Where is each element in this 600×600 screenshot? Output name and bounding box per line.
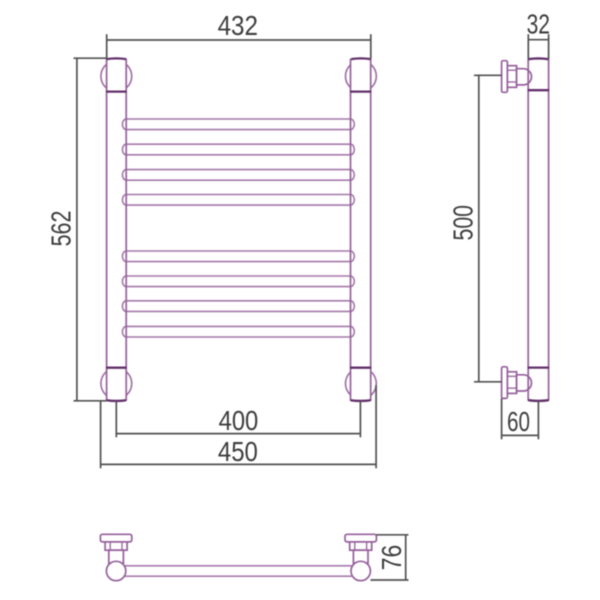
- svg-text:60: 60: [507, 406, 530, 437]
- svg-text:500: 500: [447, 205, 478, 241]
- svg-text:76: 76: [376, 545, 407, 571]
- svg-text:32: 32: [527, 9, 550, 40]
- svg-text:432: 432: [218, 10, 258, 41]
- svg-text:400: 400: [219, 405, 259, 436]
- svg-text:562: 562: [45, 211, 76, 247]
- svg-text:450: 450: [218, 436, 258, 467]
